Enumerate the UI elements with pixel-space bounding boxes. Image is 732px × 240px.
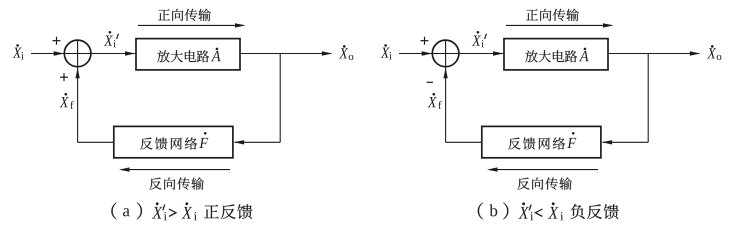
- wire: feedback box output to summing node (b): [446, 141, 482, 143]
- reverse transmission arrowhead (a): [119, 167, 130, 171]
- arrowhead into summing node (a): [54, 51, 64, 55]
- summing junction circle (a): [64, 40, 91, 67]
- amplifier label 放大电路 (b): [525, 50, 577, 62]
- input signal Xi with dot (b): [380, 44, 391, 59]
- caption paren open (a): [111, 203, 116, 220]
- plus sign at input (b): [421, 37, 429, 45]
- caption letter a: [123, 208, 130, 216]
- arrowhead into amplifier box (b): [493, 51, 504, 55]
- wire: amplifier output to Xo (b): [608, 53, 699, 55]
- dot above A (a): [216, 48, 219, 51]
- net input signal Xi-prime with dot (b): [472, 31, 484, 47]
- wire: feedback vertical through summing node (b): [445, 40, 447, 142]
- feedback factor symbol F (b): [567, 138, 576, 148]
- wire: input Xi to summing node (b): [399, 53, 504, 55]
- plus sign at input (a): [53, 37, 61, 45]
- label 反向传输 (a): [149, 177, 204, 189]
- arrowhead into amplifier box (a): [125, 51, 136, 55]
- caption prime mark (a): [163, 205, 165, 211]
- arrowhead up into summing node (b): [443, 68, 447, 79]
- reverse transmission arrowhead (b): [487, 167, 498, 171]
- caption feedback type label (b): [570, 204, 618, 219]
- net input signal Xi-prime with dot (a): [104, 31, 116, 47]
- label 正向传输 (a): [158, 9, 211, 21]
- caption paren open (b): [478, 203, 483, 220]
- caption letter b: [489, 204, 497, 216]
- caption Xi with dot (a): [182, 202, 197, 220]
- input signal Xi with dot (a): [12, 44, 23, 59]
- reverse transmission arrow line (b): [489, 169, 598, 171]
- amplifier gain symbol A (a): [211, 51, 221, 61]
- prime mark on Xi-prime (b): [485, 34, 487, 39]
- arrowhead into feedback box (a): [234, 140, 245, 144]
- forward transmission arrow line (a): [138, 24, 244, 26]
- dot above F (a): [204, 132, 207, 135]
- wire: feedback row into feedback box (b): [603, 141, 649, 143]
- feedback signal Xf with dot (a): [60, 93, 74, 109]
- caption Xi-prime with dot (a): [152, 202, 167, 220]
- caption less-than (b): [535, 209, 542, 216]
- caption paren close (a): [137, 203, 142, 220]
- amplifier block box (b): [504, 39, 608, 70]
- arrowhead into feedback box (b): [602, 140, 613, 144]
- wire: junction down to feedback row (b): [647, 54, 649, 143]
- wire: amplifier output to Xo (a): [240, 53, 331, 55]
- amplifier block box (a): [136, 39, 240, 70]
- wire: feedback row into feedback box (a): [235, 141, 281, 143]
- plus sign at feedback input (a): [60, 73, 68, 81]
- feedback signal Xf with dot (b): [428, 93, 442, 109]
- wire: input Xi to summing node (a): [31, 53, 136, 55]
- feedback label 反馈网络 (b): [508, 137, 565, 149]
- output signal Xo with dot (b): [707, 45, 721, 60]
- dot above F (b): [572, 132, 575, 135]
- dot above A (b): [584, 48, 587, 51]
- wire: feedback vertical through summing node (a): [77, 40, 79, 142]
- forward transmission arrowhead (a): [235, 23, 246, 27]
- arrowhead at output Xo (a): [322, 51, 333, 55]
- label 正向传输 (b): [526, 9, 579, 21]
- caption Xi with dot (b): [548, 202, 563, 220]
- forward transmission arrow line (b): [506, 24, 612, 26]
- forward transmission arrowhead (b): [603, 23, 614, 27]
- reverse transmission arrow line (a): [121, 169, 230, 171]
- caption Xi-prime with dot (b): [518, 202, 533, 220]
- caption greater-than (a): [169, 209, 176, 216]
- wire: junction down to feedback row (a): [279, 54, 281, 143]
- caption feedback type label (a): [204, 204, 252, 219]
- caption paren close (b): [503, 203, 508, 220]
- feedback network box (b): [482, 126, 601, 157]
- output signal Xo with dot (a): [339, 45, 353, 60]
- amplifier gain symbol A (b): [579, 51, 589, 61]
- label 反向传输 (b): [517, 177, 572, 189]
- arrowhead at output Xo (b): [690, 51, 701, 55]
- arrowhead up into summing node (a): [75, 68, 79, 79]
- feedback network box (a): [114, 126, 233, 157]
- feedback factor symbol F (a): [199, 138, 208, 148]
- wire: feedback box output to summing node (a): [78, 141, 114, 143]
- amplifier label 放大电路 (a): [157, 50, 209, 62]
- caption prime mark (b): [529, 205, 531, 211]
- arrowhead into summing node (b): [422, 51, 433, 55]
- summing junction circle (b): [432, 40, 459, 67]
- minus sign at feedback input (b): [427, 81, 433, 83]
- prime mark on Xi-prime (a): [117, 34, 119, 39]
- feedback label 反馈网络 (a): [140, 137, 197, 149]
